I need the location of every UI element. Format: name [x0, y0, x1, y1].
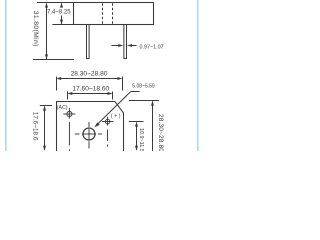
svg-text:0.97~1.07: 0.97~1.07 — [140, 45, 164, 51]
extension line bottom (lead end) — [33, 59, 74, 61]
svg-text:7.4~8.25: 7.4~8.25 — [47, 10, 71, 16]
svg-text:5.08~5.59: 5.08~5.59 — [132, 84, 155, 90]
left vertical dimension 17.6~18.6 — [40, 106, 52, 151]
svg-text:28.30~28.80: 28.30~28.80 — [71, 71, 108, 78]
pin pitch dimension 17.60~18.60 — [67, 92, 112, 100]
right inner dimension 10.9~11.5 vertical — [129, 122, 144, 151]
plan width dimension 28.30~28.80 — [56, 77, 122, 91]
lead width dimension arrows — [112, 44, 137, 47]
left table border (blue) — [5, 0, 7, 151]
AC pin marker — [63, 108, 75, 151]
svg-text:17.60~18.60: 17.60~18.60 — [72, 85, 109, 92]
svg-text:10.9~11.5: 10.9~11.5 — [138, 128, 144, 151]
svg-text:(AC): (AC) — [57, 105, 68, 111]
svg-text:17.6~18.6: 17.6~18.6 — [32, 112, 39, 141]
side view: right lead pin — [124, 25, 127, 59]
side view: body outline — [74, 3, 154, 25]
side view: hidden hole dashed line right — [112, 3, 114, 24]
side view: hidden hole dashed line left — [102, 3, 104, 24]
plus pin marker — [102, 117, 114, 147]
right table border (blue) — [197, 0, 199, 151]
center mounting hole — [83, 128, 95, 140]
right outer dimension 28.30~28.80 vertical — [129, 101, 159, 152]
extension line top — [37, 2, 74, 4]
hole center lines — [75, 122, 102, 148]
hole diameter leader 5.08~5.59 — [94, 92, 139, 128]
svg-text:( + ): ( + ) — [111, 114, 121, 120]
body bottom extension line — [52, 24, 73, 26]
dimension 31.80(Min) line — [45, 3, 48, 60]
side view: left lead pin — [87, 25, 90, 59]
dimension 7.4~8.25 arrows — [60, 3, 63, 25]
svg-text:31.80(Min): 31.80(Min) — [32, 11, 39, 47]
svg-text:28.30~28.80: 28.30~28.80 — [157, 114, 164, 151]
plan view: case outline with chamfer corner — [57, 102, 124, 152]
